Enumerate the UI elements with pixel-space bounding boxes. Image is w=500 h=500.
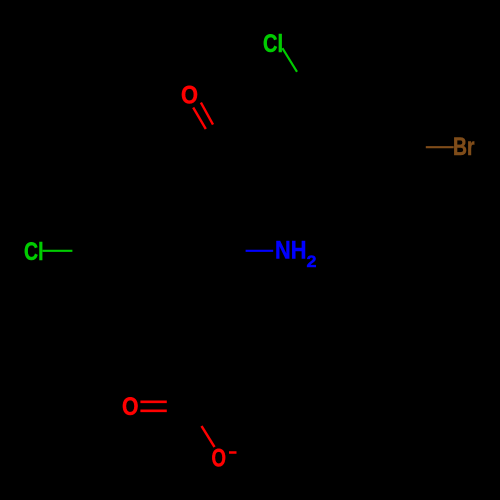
svg-text:NH: NH [275,237,307,265]
bond C=O double bond half stubs (ketone) [193,108,206,130]
bond C-Cl half stub (top) [282,48,297,72]
svg-text:Cl: Cl [263,30,283,58]
svg-text:2: 2 [307,252,317,271]
bond C-Cl half stub (left, horizontal) [43,250,73,252]
bond C=O double bond half stubs (carboxylate, horizontal) [140,400,166,403]
bond C-N half stub (horizontal) [246,250,274,252]
svg-text:Br: Br [453,133,475,161]
svg-text:O: O [212,445,227,473]
svg-text:O: O [181,82,198,110]
bond C-O half stub (to carboxylate O-) [202,426,215,447]
svg-text:O: O [122,393,139,421]
svg-text:Cl: Cl [24,238,44,266]
bond C-Br half stub [426,146,454,148]
charge minus sign of O- [229,451,237,454]
